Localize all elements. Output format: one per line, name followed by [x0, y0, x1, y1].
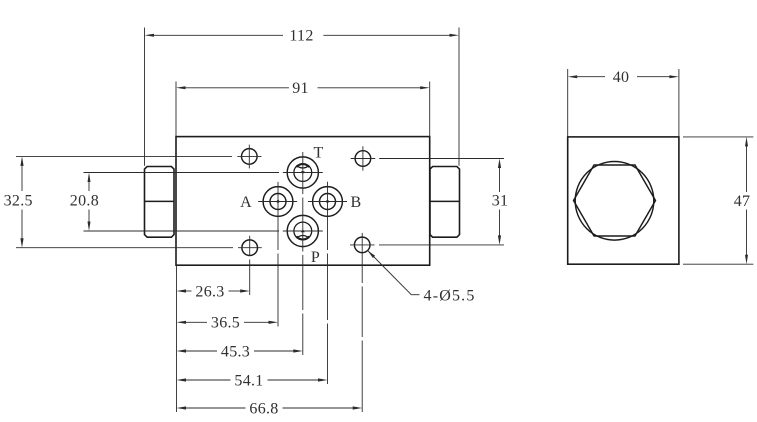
dimension 47 extension line top [683, 136, 753, 138]
centerline port P horizontal [283, 230, 323, 232]
centerline hole bottom-left horizontal + 32.5 extension [16, 247, 233, 249]
dimension 20.8 arrows [88, 173, 91, 183]
leader line 4-dia-5.5 [367, 250, 411, 295]
port B [313, 187, 343, 217]
port T [287, 157, 318, 188]
dimension 40 extension line left [567, 69, 569, 137]
centerline hole bottom-right horizontal + 31 extension [350, 244, 375, 246]
centerline hole bottom-right vertical [361, 233, 363, 283]
extension line 20.8 bottom (to port P) [84, 230, 280, 232]
dimension 47 extension line bottom [683, 263, 753, 265]
dimension 54.1 arrows [177, 378, 187, 381]
svg-text:31: 31 [492, 193, 509, 210]
centerline port A vertical [277, 182, 279, 250]
dimension 112 extension line left [144, 28, 146, 166]
svg-text:P: P [311, 249, 320, 266]
dimension 36.5 arrows [177, 321, 187, 324]
dimension 26.3 line [186, 290, 192, 292]
left hex plug [145, 167, 175, 238]
dimension 31 arrows [498, 159, 501, 169]
svg-text:112: 112 [289, 28, 313, 45]
dimension 32.5 line [21, 165, 23, 191]
dimension 54.1 line [186, 379, 231, 381]
centerline hole top-right horizontal + 31 extension [351, 158, 376, 160]
dimension 32.5 arrows [20, 156, 23, 166]
centerline port T horizontal [283, 172, 323, 174]
centerline hole top-right vertical [362, 146, 364, 170]
dimension 91 arrows [176, 86, 186, 89]
leader arrow [367, 250, 375, 258]
dimension 36.5 line [186, 321, 208, 323]
svg-text:26.3: 26.3 [195, 283, 224, 300]
dimension 47 arrows [745, 137, 748, 147]
dimension 31 line [499, 168, 501, 193]
dimension 40 line [577, 76, 605, 78]
dimension 112 line [154, 34, 284, 36]
dimension 91 extension line left [175, 82, 177, 137]
dimension 40 extension line right [678, 69, 680, 137]
svg-text:40: 40 [613, 69, 630, 86]
dimension 112 arrows [145, 34, 155, 37]
port A [263, 187, 293, 217]
svg-text:45.3: 45.3 [221, 343, 250, 360]
centerline hole top-left vertical [248, 145, 250, 169]
svg-text:B: B [351, 194, 362, 211]
centerline port B vertical [327, 182, 329, 250]
valve body front view outline [176, 137, 430, 266]
svg-text:54.1: 54.1 [234, 372, 263, 389]
svg-text:66.8: 66.8 [249, 400, 278, 417]
dimension 26.3 arrows [177, 289, 187, 292]
svg-text:A: A [240, 194, 252, 211]
dimension 40 arrows [568, 75, 578, 78]
svg-text:32.5: 32.5 [4, 193, 33, 210]
svg-text:91: 91 [292, 80, 309, 97]
valve body side view outline [568, 137, 679, 264]
mounting hole bottom-left [242, 240, 258, 256]
dimension 45.3 line [186, 350, 218, 352]
svg-text:20.8: 20.8 [70, 193, 99, 210]
dimension 47 line [746, 146, 748, 192]
dimension 66.8 arrows [177, 406, 187, 409]
hex plug side view hexagon [574, 165, 656, 236]
dimension 91 line [185, 87, 289, 89]
centerline hole top-left horizontal + 32.5 extension [16, 155, 232, 157]
svg-text:36.5: 36.5 [211, 315, 240, 332]
bottom chain extension line left edge [176, 265, 178, 412]
dimension 66.8 line [186, 407, 246, 409]
hex plug chamfer circle [575, 162, 654, 241]
centerline port B horizontal [308, 201, 347, 203]
mounting hole top-right [355, 151, 371, 167]
centerline ports T-P vertical [302, 152, 304, 194]
dimension 45.3 arrows [177, 349, 187, 352]
port P [287, 215, 318, 246]
dimension 112 extension line right [458, 28, 460, 166]
mounting hole bottom-right [354, 237, 370, 253]
svg-text:4-Ø5.5: 4-Ø5.5 [424, 288, 476, 305]
mounting hole top-left [242, 149, 258, 165]
extension line 20.8 top (to port T) [84, 172, 280, 174]
centerline port A horizontal [258, 201, 297, 203]
dimension 91 extension line right [429, 82, 431, 137]
right hex plug [430, 167, 460, 238]
dimension 20.8 line [88, 182, 90, 192]
centerline hole bottom-left vertical [249, 236, 251, 256]
svg-text:T: T [313, 145, 323, 162]
svg-text:47: 47 [734, 193, 751, 210]
